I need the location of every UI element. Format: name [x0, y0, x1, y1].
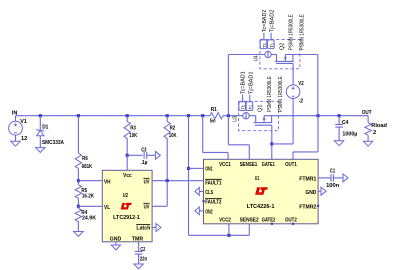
svg-text:LTC2912-1: LTC2912-1: [113, 215, 140, 221]
svg-text:U3: U3: [233, 116, 239, 122]
svg-text:Rload: Rload: [371, 123, 387, 129]
svg-text:C1: C1: [330, 169, 335, 175]
svg-text:R1: R1: [211, 107, 217, 113]
svg-text:5m: 5m: [210, 119, 216, 125]
svg-text:OUT1: OUT1: [285, 162, 297, 168]
svg-text:PSMN 1R5300LE: PSMN 1R5300LE: [288, 14, 294, 50]
svg-text:ON2: ON2: [205, 209, 213, 215]
svg-text:ON1: ON1: [205, 167, 213, 173]
svg-text:Tj: Tj: [269, 43, 274, 47]
svg-text:TMR: TMR: [132, 236, 144, 242]
svg-text:.1µ: .1µ: [141, 160, 148, 166]
svg-text:GATE2: GATE2: [262, 218, 276, 224]
svg-text:UV: UV: [144, 205, 150, 211]
svg-text:OUT2: OUT2: [285, 218, 297, 224]
svg-text:Vcc: Vcc: [123, 173, 132, 179]
svg-text:D1: D1: [42, 124, 48, 130]
svg-text:VCC2: VCC2: [219, 218, 231, 224]
svg-text:SENSE2: SENSE2: [240, 218, 259, 224]
svg-text:C4: C4: [342, 120, 349, 126]
svg-text:SENSE1: SENSE1: [240, 162, 258, 168]
svg-text:16.2K: 16.2K: [82, 194, 95, 200]
svg-text:Tc: Tc: [262, 43, 267, 48]
svg-text:Tc=BAD2: Tc=BAD2: [262, 9, 268, 32]
svg-text:12: 12: [21, 136, 28, 142]
svg-text:UV: UV: [144, 180, 150, 186]
svg-text:C3: C3: [141, 147, 146, 153]
svg-text:SMC333A: SMC333A: [42, 140, 64, 146]
svg-text:2: 2: [373, 130, 376, 136]
svg-text:U2: U2: [123, 193, 128, 199]
svg-text:OUT: OUT: [362, 110, 372, 116]
svg-text:U1: U1: [255, 176, 260, 182]
svg-text:CLS: CLS: [205, 190, 214, 196]
svg-text:Tj=BAD2: Tj=BAD2: [270, 9, 276, 32]
svg-text:FAULT2: FAULT2: [205, 200, 221, 206]
svg-text:22n: 22n: [140, 256, 148, 262]
svg-text:R6: R6: [82, 156, 88, 162]
svg-text:LTC4226-1: LTC4226-1: [247, 204, 275, 210]
svg-text:GND: GND: [305, 190, 316, 196]
svg-text:10K: 10K: [169, 133, 177, 139]
svg-text:VL: VL: [104, 205, 110, 211]
svg-text:-2: -2: [299, 98, 304, 104]
svg-text:GATE1: GATE1: [262, 162, 275, 168]
svg-text:PSMN 1R5300LE: PSMN 1R5300LE: [278, 76, 284, 112]
svg-text:IN: IN: [12, 111, 18, 117]
svg-text:Tj=BAD1: Tj=BAD1: [248, 71, 254, 94]
svg-text:Tc=BAD1: Tc=BAD1: [241, 71, 247, 94]
svg-text:24.9K: 24.9K: [82, 215, 96, 221]
svg-text:100n: 100n: [326, 183, 339, 189]
svg-text:Latch: Latch: [136, 226, 150, 232]
svg-text:C2: C2: [140, 247, 145, 253]
svg-text:V2: V2: [298, 81, 304, 87]
svg-text:10K: 10K: [129, 133, 137, 139]
svg-text:Q2: Q2: [279, 42, 285, 50]
svg-text:1000µ: 1000µ: [342, 131, 357, 137]
svg-text:VCC1: VCC1: [219, 162, 231, 168]
svg-text:PSMN 1R5300LE: PSMN 1R5300LE: [267, 76, 273, 112]
svg-text:R2: R2: [170, 125, 176, 131]
svg-text:Tc: Tc: [241, 105, 246, 110]
svg-text:Q1: Q1: [257, 104, 263, 112]
svg-text:GND: GND: [110, 236, 122, 242]
svg-text:Tj: Tj: [248, 105, 253, 109]
svg-text:R3: R3: [130, 125, 136, 131]
svg-text:PSMN 1R5300LE: PSMN 1R5300LE: [299, 14, 305, 50]
svg-text:V1: V1: [20, 119, 27, 125]
svg-text:681K: 681K: [82, 164, 93, 170]
svg-text:U4: U4: [254, 55, 260, 61]
svg-text:FTMR2: FTMR2: [299, 205, 316, 211]
svg-text:FAULT1: FAULT1: [205, 180, 221, 186]
svg-text:FTMR1: FTMR1: [299, 177, 316, 183]
svg-text:VH: VH: [104, 179, 111, 185]
